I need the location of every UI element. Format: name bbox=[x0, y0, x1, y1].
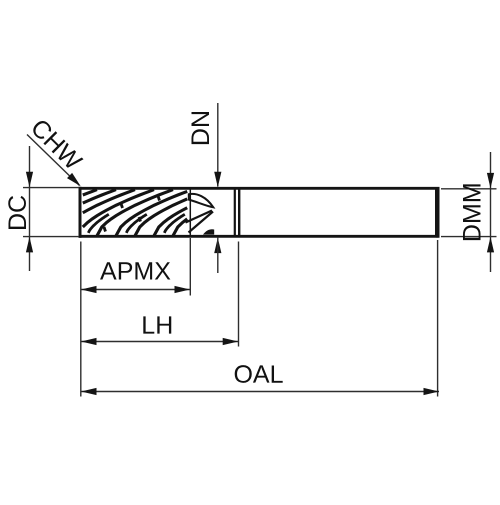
svg-text:LH: LH bbox=[141, 312, 173, 340]
svg-text:OAL: OAL bbox=[233, 361, 283, 389]
svg-text:DN: DN bbox=[187, 110, 215, 146]
svg-text:DC: DC bbox=[4, 195, 32, 231]
svg-text:APMX: APMX bbox=[100, 257, 171, 285]
svg-text:DMM: DMM bbox=[459, 182, 487, 242]
